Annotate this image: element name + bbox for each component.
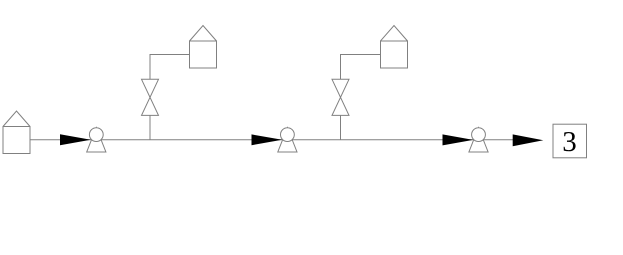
svg-text:3: 3	[562, 126, 577, 158]
pump P2	[278, 128, 297, 152]
tank T1 (source house)	[3, 111, 30, 154]
main pipe wire	[30, 139, 513, 141]
flow arrow A4	[513, 134, 544, 146]
wire branch 2 horizontal	[340, 54, 381, 56]
flow arrow A3	[443, 134, 474, 145]
flow arrow A2	[252, 134, 283, 145]
tank T2 (branch 1 house)	[190, 26, 217, 69]
flow arrow A1	[60, 134, 91, 145]
wire branch 1 vertical	[149, 55, 151, 140]
tank T3 (branch 2 house)	[381, 26, 408, 69]
wire branch 2 vertical	[340, 55, 342, 140]
sink box node 3	[553, 124, 587, 158]
wire branch 1 horizontal	[150, 54, 190, 56]
valve V1	[142, 79, 159, 115]
pump P1	[87, 128, 106, 152]
valve V2	[332, 79, 349, 115]
pump P3	[469, 128, 488, 152]
